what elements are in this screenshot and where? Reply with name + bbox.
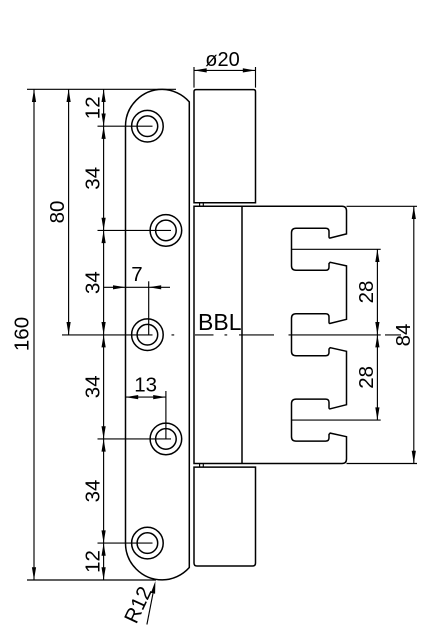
R12 leader line bbox=[147, 593, 153, 624]
hole 4 spur centerline bbox=[98, 438, 172, 440]
dim 80 line bbox=[68, 89, 70, 334]
frame part internal edge bbox=[241, 206, 243, 463]
dim o20 line bbox=[194, 69, 256, 71]
hole 4 bbox=[150, 423, 182, 455]
top extension line bbox=[27, 88, 176, 90]
svg-text:160: 160 bbox=[10, 317, 33, 351]
dim 7 extension bbox=[148, 281, 150, 334]
notch 1 mid line (28 dim extension) bbox=[292, 248, 381, 250]
dim o20 extension lines bbox=[194, 67, 256, 88]
svg-text:28: 28 bbox=[355, 281, 378, 304]
svg-text:34: 34 bbox=[81, 167, 104, 190]
notch 3 mid line (28 dim extension) bbox=[292, 419, 381, 421]
svg-text:12: 12 bbox=[81, 550, 104, 573]
dim 13 extension bbox=[165, 391, 167, 439]
svg-text:BBL: BBL bbox=[198, 309, 242, 335]
hole 5 spur centerline bbox=[98, 542, 153, 544]
svg-text:34: 34 bbox=[81, 375, 104, 398]
dim 84 line bbox=[413, 206, 415, 463]
svg-text:28: 28 bbox=[355, 366, 378, 389]
svg-text:ø20: ø20 bbox=[205, 49, 239, 71]
hole 3 bbox=[132, 319, 164, 351]
bottom knuckle cylinder bbox=[194, 467, 256, 566]
hole 1 bbox=[132, 110, 164, 142]
hole 2 spur centerline bbox=[98, 229, 172, 231]
knuckle parting ticks bottom bbox=[200, 464, 204, 468]
dim 13 line bbox=[126, 396, 166, 398]
svg-text:7: 7 bbox=[131, 263, 142, 286]
svg-text:13: 13 bbox=[134, 373, 157, 396]
BBL dash-dot centerline bbox=[62, 334, 401, 336]
frame part body with comb notches bbox=[194, 206, 347, 463]
svg-text:34: 34 bbox=[81, 480, 104, 503]
dim 28 line bbox=[376, 249, 378, 420]
hinge leaf outline bbox=[126, 89, 190, 580]
chain dimension line bbox=[103, 89, 105, 580]
bottom extension line bbox=[27, 579, 156, 581]
top knuckle cylinder bbox=[194, 90, 256, 203]
svg-text:34: 34 bbox=[81, 271, 104, 294]
svg-text:12: 12 bbox=[81, 96, 104, 119]
dim 160 line bbox=[33, 89, 35, 580]
svg-text:84: 84 bbox=[392, 324, 415, 347]
dim 7 line bbox=[104, 286, 170, 288]
dim 84 extension lines bbox=[347, 206, 418, 463]
hole 1 spur centerline bbox=[98, 125, 153, 127]
svg-text:80: 80 bbox=[46, 201, 69, 224]
knuckle parting ticks top bbox=[200, 203, 204, 207]
hole 5 bbox=[132, 527, 164, 559]
hole 2 bbox=[150, 215, 182, 247]
